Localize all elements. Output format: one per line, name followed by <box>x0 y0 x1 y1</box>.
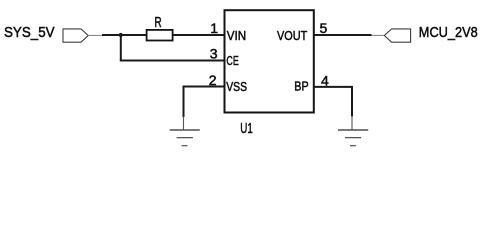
port symbol SYS_5V <box>63 29 102 42</box>
junction node <box>119 33 123 37</box>
svg-text:VIN: VIN <box>227 28 246 43</box>
wire VOUT pin 5 to MCU_2V8 <box>314 34 372 36</box>
regulator IC U1 <box>225 10 314 137</box>
svg-text:2: 2 <box>209 72 217 88</box>
wire VSS pin 2 to ground <box>184 87 225 118</box>
svg-text:CE: CE <box>226 53 238 68</box>
svg-text:VOUT: VOUT <box>277 28 307 43</box>
svg-text:U1: U1 <box>240 121 253 137</box>
svg-text:5: 5 <box>320 20 328 36</box>
wire SYS_5V to VIN pin 1 <box>102 34 225 36</box>
svg-text:1: 1 <box>210 20 218 36</box>
wire BP pin 4 to ground <box>314 87 352 117</box>
svg-text:BP: BP <box>294 79 308 94</box>
svg-text:SYS_5V: SYS_5V <box>4 25 55 41</box>
resistor R <box>147 15 173 41</box>
svg-text:VSS: VSS <box>226 79 247 94</box>
svg-text:3: 3 <box>210 46 218 62</box>
svg-text:MCU_2V8: MCU_2V8 <box>419 25 478 41</box>
port symbol MCU_2V8 <box>372 29 411 42</box>
wire to CE pin 3 <box>120 60 225 62</box>
ground (left) <box>170 117 200 146</box>
wire junction down to CE <box>120 35 122 61</box>
ground (right) <box>338 116 368 146</box>
svg-text:R: R <box>154 15 161 31</box>
